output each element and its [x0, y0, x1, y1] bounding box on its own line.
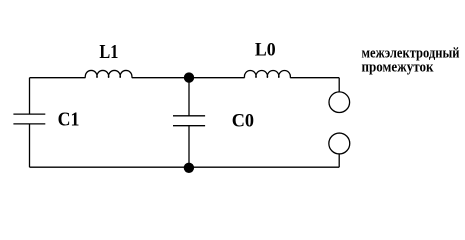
wire middle vertical upper	[188, 78, 190, 116]
electrode top circle	[329, 92, 350, 113]
node top junction	[184, 72, 194, 82]
capacitor C1	[13, 114, 45, 124]
capacitor C0	[173, 116, 205, 126]
wire left vertical lower	[29, 124, 31, 167]
svg-text:C0: C0	[232, 111, 254, 132]
wire right vertical from bottom electrode	[338, 154, 340, 167]
svg-text:C1: C1	[58, 109, 80, 131]
wire right vertical to top electrode	[338, 78, 340, 92]
wire left vertical upper	[29, 78, 31, 114]
wire top-middle horizontal	[132, 77, 245, 79]
svg-text:L1: L1	[99, 41, 118, 63]
node bottom junction	[184, 163, 194, 173]
svg-text:L0: L0	[255, 40, 276, 61]
wire top-right horizontal	[290, 77, 339, 79]
wire bottom horizontal	[30, 166, 340, 168]
inductor L1	[85, 70, 132, 77]
inductor L0	[244, 71, 290, 78]
wire middle vertical lower	[188, 126, 190, 168]
electrode bottom circle	[329, 133, 350, 154]
svg-text:промежуток: промежуток	[362, 59, 435, 75]
wire top-left horizontal	[30, 77, 86, 79]
